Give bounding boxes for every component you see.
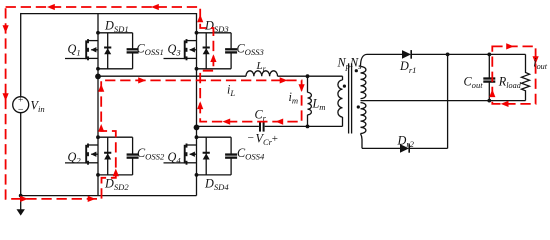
diode Dr2 xyxy=(400,144,409,153)
winding secondary bottom Ns xyxy=(361,103,366,134)
wire Q4 cell bottom rail xyxy=(197,174,232,176)
capacitor COSS1 xyxy=(132,33,134,50)
wire primary bottom lead xyxy=(342,117,344,126)
transistor Q2 xyxy=(88,144,98,146)
capacitor Cout xyxy=(488,54,490,78)
wire Q1 cell bottom rail xyxy=(98,68,133,70)
node Vin bottom bus junction xyxy=(19,194,23,198)
diode DSD4 xyxy=(205,137,207,175)
node Q2 bottom rail xyxy=(96,173,100,177)
node Lm bottom xyxy=(306,125,310,129)
wire Dr2 branch (sec bottom) xyxy=(362,147,400,149)
capacitor Cr xyxy=(259,121,261,131)
node Q3 bottom rail xyxy=(195,67,199,71)
wire top rail (Dr1 to Rload) xyxy=(411,53,525,55)
wire Q4 cell top rail xyxy=(197,136,232,138)
node A (left leg mid) xyxy=(95,74,101,80)
wire top rail (sec to Dr1) xyxy=(367,53,402,55)
wire Q3 cell bottom rail xyxy=(197,68,232,70)
core xyxy=(348,63,350,133)
resistor Rload xyxy=(522,54,530,100)
node Dr2 riser top xyxy=(446,53,450,57)
wire left leg vertical xyxy=(97,14,99,196)
red current direction arrows xyxy=(151,4,159,10)
wire left vertical lower (Vin to bottom bus) xyxy=(20,113,22,196)
wire Lr to primary xyxy=(278,75,343,77)
svg-text:−: − xyxy=(248,132,255,144)
wire red main current loop xyxy=(6,7,302,199)
node B (right leg mid) xyxy=(194,125,200,131)
wire left vertical upper (Vin to top bus) xyxy=(20,13,22,97)
wire top bus xyxy=(21,13,197,15)
node Q1 top rail xyxy=(96,31,100,35)
node Q4 top rail xyxy=(195,135,199,139)
wire Lm top lead xyxy=(307,76,309,92)
diode DSD1 xyxy=(107,33,109,69)
wire Dr2 riser xyxy=(447,54,449,148)
transistor Q4 xyxy=(187,144,197,146)
svg-text:+: + xyxy=(272,133,278,145)
wire Cr (node B to Cr) xyxy=(197,125,259,127)
node Q2 top rail xyxy=(96,135,100,139)
node Q3 top rail xyxy=(195,31,199,35)
node secondary top polarity dot xyxy=(355,69,358,72)
node Lm top xyxy=(306,74,310,78)
node Q1 bottom rail xyxy=(96,67,100,71)
wire Q1 cell top rail xyxy=(98,32,133,34)
wire center tap rail xyxy=(361,100,526,102)
diode DSD3 xyxy=(205,33,207,69)
capacitor COSS4 xyxy=(230,137,232,154)
source Vin xyxy=(13,97,29,113)
node Q4 bottom rail xyxy=(195,173,199,177)
diode DSD2 xyxy=(107,137,109,175)
wire primary top lead xyxy=(342,76,344,80)
transistor Q3 xyxy=(187,40,197,42)
diode Dr1 xyxy=(402,50,411,59)
wire iL (node A to Lr) xyxy=(98,75,246,77)
node Cout bottom xyxy=(487,99,491,103)
wire secondary top lead xyxy=(361,54,368,66)
transistor Q1 xyxy=(88,40,98,42)
wire secondary bottom lead xyxy=(361,134,363,149)
inductor Lr xyxy=(246,71,278,76)
capacitor COSS2 xyxy=(132,137,134,154)
wire Dr2 to riser xyxy=(409,147,447,149)
ground xyxy=(20,196,22,210)
winding secondary top Ns xyxy=(361,67,366,99)
wire bottom bus xyxy=(21,195,197,197)
wire Q3 cell top rail xyxy=(197,32,232,34)
wire right leg vertical xyxy=(196,13,198,196)
capacitor COSS3 xyxy=(230,33,232,50)
winding primary Np xyxy=(338,80,343,117)
node primary polarity dot xyxy=(343,85,346,88)
wire Cr to primary xyxy=(265,125,343,127)
node secondary bottom polarity dot xyxy=(357,105,360,108)
wire red output loop xyxy=(492,46,535,104)
svg-text:−: − xyxy=(18,104,24,115)
node Cout top xyxy=(487,53,491,57)
inductor Lm xyxy=(308,92,312,114)
wire Q2 cell bottom rail xyxy=(98,174,133,176)
wire Lm bottom lead xyxy=(307,115,309,127)
wire Q2 cell top rail xyxy=(98,136,133,138)
